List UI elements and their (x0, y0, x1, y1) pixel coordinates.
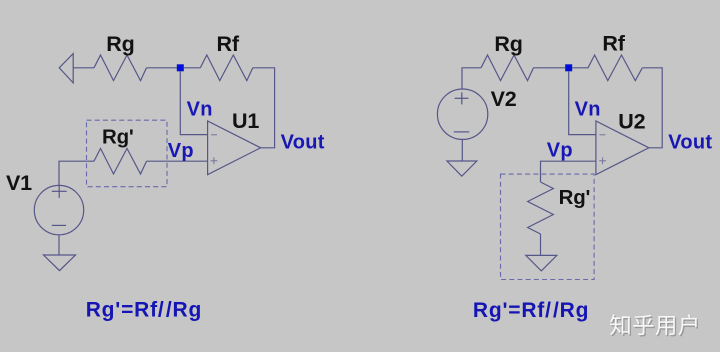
svg-text:Rg': Rg' (559, 186, 591, 209)
svg-text:Rg: Rg (106, 32, 134, 56)
wire Vp net: corner to U2 non-inverting input (541, 161, 596, 182)
wire V1 to ground (58, 235, 60, 255)
ground (right, V2) (447, 161, 477, 176)
svg-text:Rg'=Rf//Rg: Rg'=Rf//Rg (86, 298, 202, 321)
wire Vn net: junction to U2 inverting input (569, 71, 596, 134)
resistor Rf (left) (200, 55, 253, 81)
wire V1 to Rg' (59, 161, 94, 185)
resistor Rg (left) (94, 55, 147, 81)
svg-text:Vp: Vp (547, 140, 573, 162)
svg-text:Rf: Rf (217, 32, 240, 56)
svg-text:U2: U2 (618, 110, 645, 134)
svg-text:U1: U1 (232, 109, 259, 133)
wire Rg to junction (147, 67, 178, 69)
op-amp U2 (596, 121, 649, 175)
resistor Rf (right) (588, 55, 642, 81)
wire junction to Rf (184, 67, 201, 69)
svg-text:V2: V2 (491, 87, 517, 111)
svg-text:Vn: Vn (575, 99, 601, 121)
port arrow IN (left circuit) (59, 54, 73, 83)
svg-text:Vout: Vout (668, 132, 712, 154)
ground (right, Rg') (526, 255, 557, 271)
wire junction to Rf (right) (572, 67, 588, 69)
watermark 知乎用户 (610, 314, 698, 336)
dashed box around Rg' (left) (87, 120, 168, 187)
wire Rg to junction (right) (534, 67, 566, 69)
wire Rf to U1 output (253, 68, 275, 148)
voltage source V1 (34, 185, 83, 234)
svg-text:Vout: Vout (281, 132, 325, 154)
wire Vp net: Rg' to U1 non-inverting input (147, 160, 208, 162)
resistor Rg' (right, vertical) (528, 182, 554, 234)
dashed box around Rg' (right) (501, 174, 595, 279)
wire V2 to ground (461, 140, 463, 161)
svg-text:V1: V1 (6, 171, 32, 195)
resistor Rg' (left) (94, 148, 147, 174)
ground (left, V1) (44, 255, 76, 271)
wire V2 to Rg (right) (462, 68, 481, 89)
node junction Rg/Rf/Vn (left) (177, 64, 184, 71)
svg-text:Rg'=Rf//Rg: Rg'=Rf//Rg (473, 299, 589, 322)
wire Vn net: junction to U1 inverting input (180, 71, 207, 134)
node junction Rg/Rf/Vn (right) (565, 64, 572, 71)
svg-text:Vp: Vp (168, 140, 194, 162)
voltage source V2 (437, 89, 487, 139)
svg-text:Rg': Rg' (102, 125, 134, 148)
svg-text:Rf: Rf (602, 31, 625, 55)
wire arrow to Rg (73, 67, 94, 69)
svg-text:Rg: Rg (494, 32, 522, 56)
svg-text:Vn: Vn (187, 98, 213, 120)
wire Rg' to ground (right) (540, 234, 542, 255)
wire Rf to U2 output (642, 68, 662, 148)
op-amp U1 (208, 121, 261, 175)
resistor Rg (right) (481, 55, 534, 81)
